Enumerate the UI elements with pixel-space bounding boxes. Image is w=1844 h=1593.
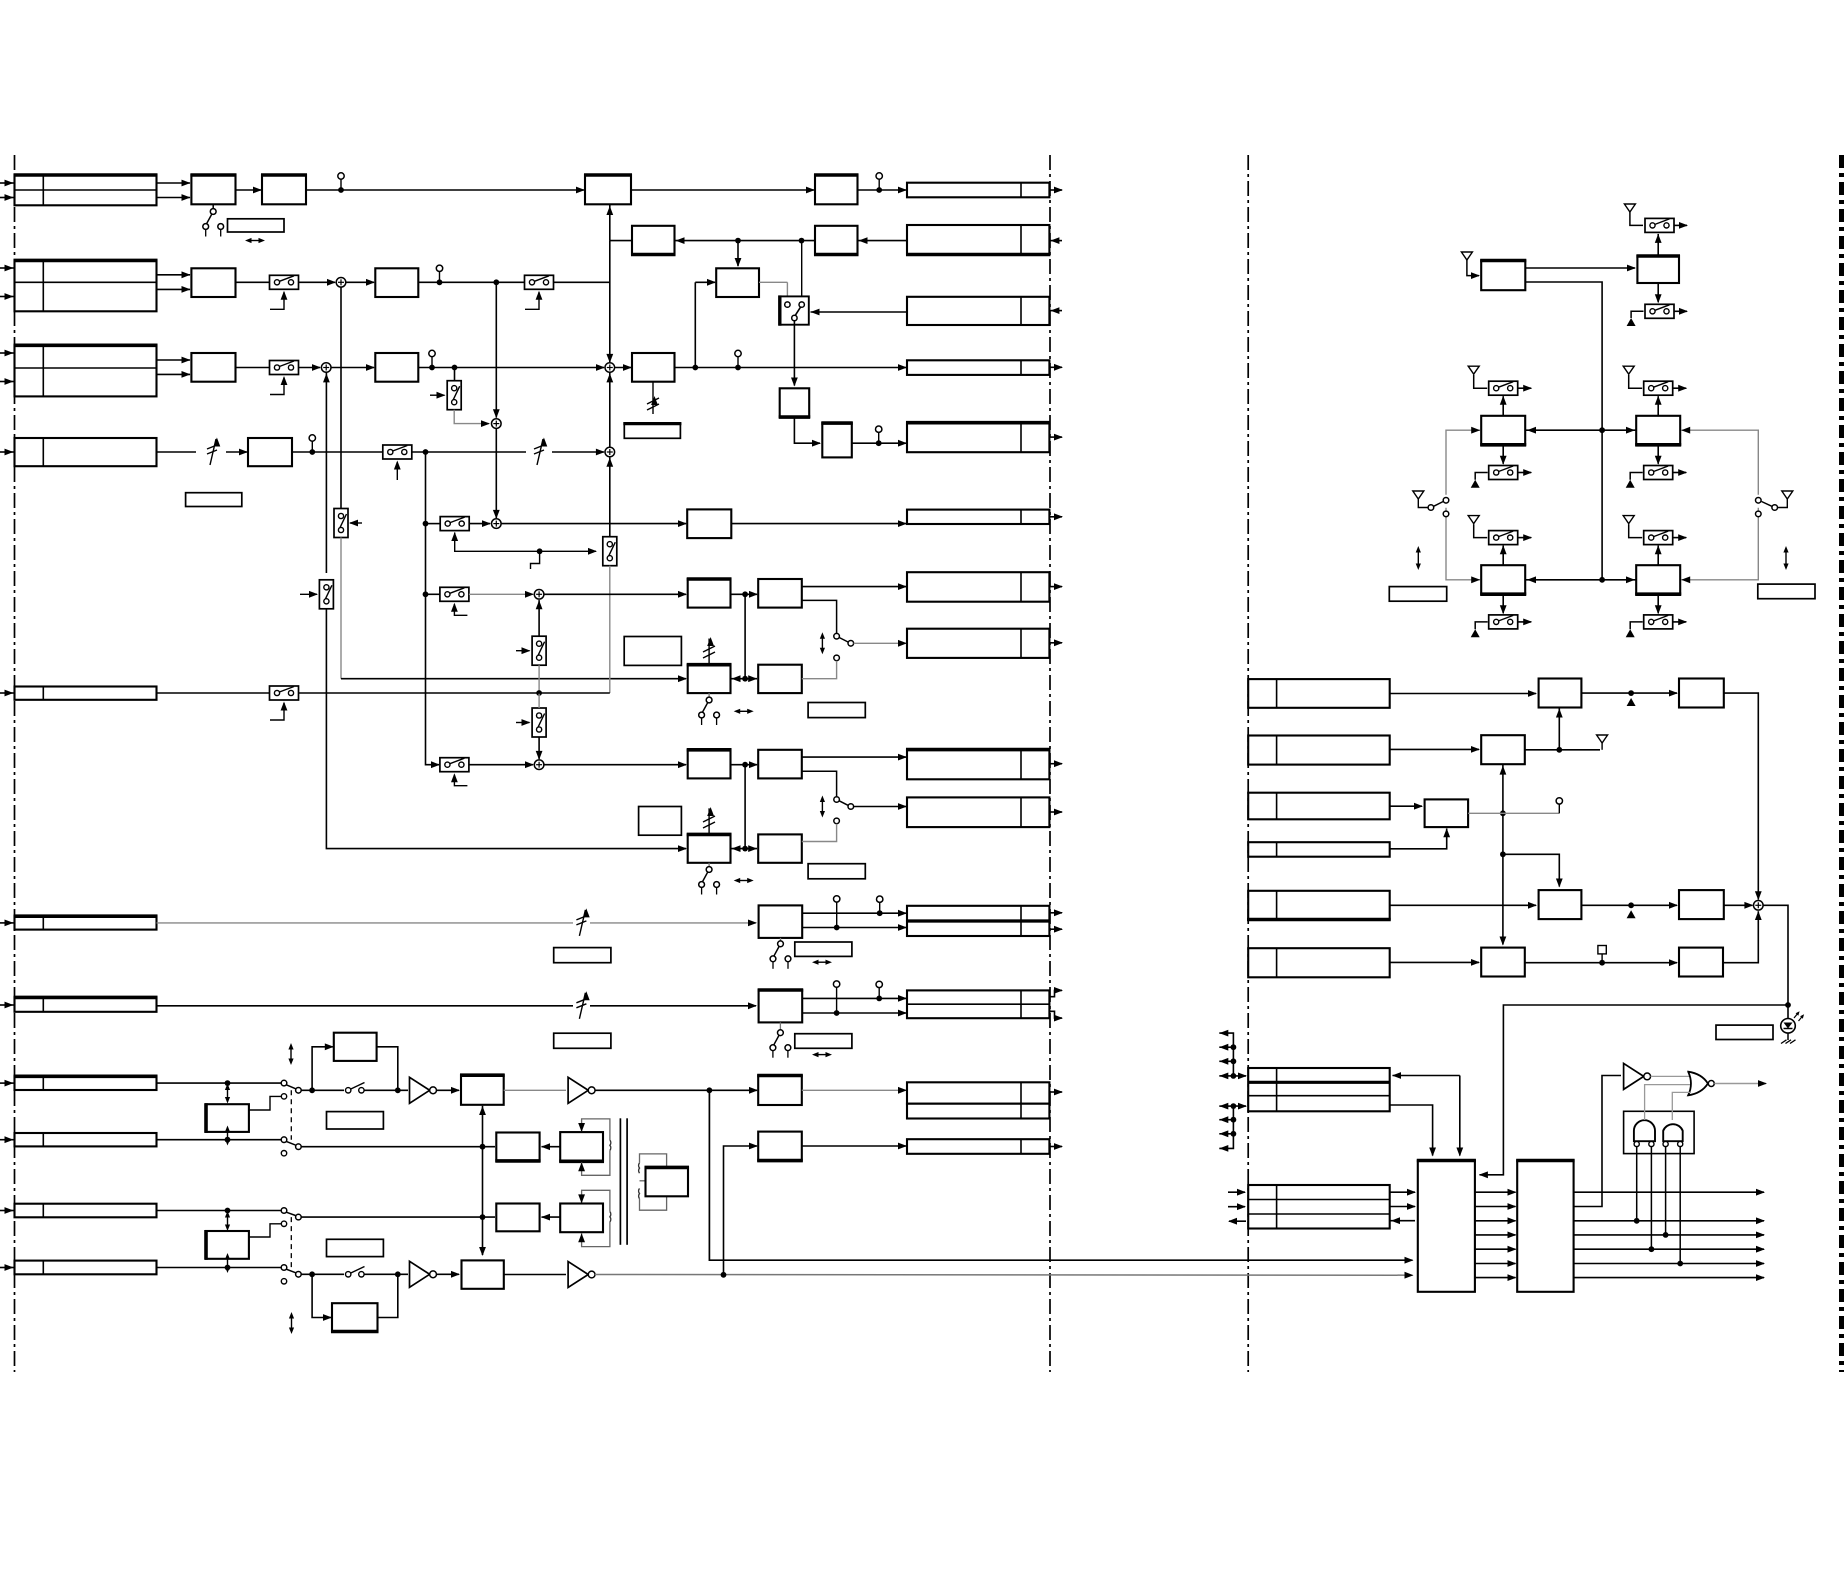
fader row7 <box>576 991 589 1019</box>
switch N3 bottom <box>1644 615 1673 629</box>
wire E9 to E10 <box>541 1214 560 1221</box>
wire line-B lower gray <box>340 538 342 679</box>
block D4 eq <box>331 1303 379 1331</box>
node after B8 <box>692 365 698 371</box>
rec-pb switch glyph C9 <box>770 938 791 969</box>
value box row8 <box>327 1112 384 1129</box>
wire C2 upper out <box>802 583 907 590</box>
wire row5 <box>157 692 270 694</box>
wire gray left feed N1 <box>1446 508 1480 583</box>
wire node down to C7 row <box>744 765 746 849</box>
inverter after E3 <box>568 1077 595 1103</box>
primary loop E9 lower <box>578 1222 610 1247</box>
test point row1 <box>338 173 344 193</box>
switch out T top <box>1645 218 1674 232</box>
wire H1 to NOR gray <box>1651 1075 1690 1077</box>
wire D4 loop <box>312 1274 398 1321</box>
mech link row8 <box>290 1090 292 1139</box>
output connector R16 <box>907 1139 1063 1154</box>
block E4 <box>757 1076 803 1106</box>
node bus1 tap <box>707 1087 713 1093</box>
wire sum E1 to C1 <box>544 591 687 598</box>
wire M2 down <box>1500 445 1507 465</box>
summing node R3b <box>605 363 615 373</box>
up-down arrow D4 <box>289 1312 294 1334</box>
switch S1 <box>603 537 617 566</box>
wire B2 to R1 <box>858 187 908 194</box>
left-right arrow C3 <box>734 709 754 714</box>
output connector R2 <box>906 225 1062 255</box>
unused contact row11 <box>281 1279 286 1284</box>
wire vertical row4 sum to R3b <box>606 372 613 447</box>
wire tri M3 top <box>1629 375 1643 388</box>
secondary coil E8 lower <box>638 1188 641 1198</box>
block T2 <box>1636 256 1680 283</box>
wire L6 down to G3 <box>1456 1076 1463 1157</box>
test point after B2 <box>876 173 882 193</box>
output connector R1 <box>907 183 1063 198</box>
input connector row6 <box>0 916 158 929</box>
wire bus2 gray <box>595 1272 1414 1279</box>
control tri N3 bottom <box>1626 629 1635 637</box>
wire line-C <box>426 452 441 768</box>
rec-pb switch glyph C7 <box>699 863 720 895</box>
wire E11 out <box>802 1143 907 1150</box>
up-down arrow D2 <box>288 1043 293 1065</box>
wire selector to B6 <box>791 321 798 387</box>
wire G4 out 3 <box>1574 1217 1765 1224</box>
output connector R10 <box>907 797 1063 827</box>
node row9 vert <box>480 1144 486 1150</box>
wire A6 east <box>418 364 605 371</box>
wire inv to E3 <box>436 1087 460 1094</box>
wire N3 down <box>1655 594 1662 614</box>
wire <box>157 271 191 292</box>
primary loop E9 upper <box>578 1190 610 1211</box>
node D1 bottom stub <box>225 1137 231 1143</box>
wire B1 to B2 <box>631 187 815 194</box>
wire switch to sum E2 <box>469 761 534 768</box>
wire AND1 top gray <box>1645 1085 1690 1120</box>
summing node mix4 <box>492 419 502 429</box>
test point after B7 <box>876 426 882 446</box>
wire switch to sum E1 gray <box>469 591 534 598</box>
A1 toggle stem <box>212 204 214 208</box>
wire B8 east <box>675 364 908 371</box>
arrow out M3 top <box>1673 385 1688 392</box>
wire row9 <box>157 1139 282 1141</box>
wire row10 <box>157 1210 282 1212</box>
summing node R3a <box>321 363 331 373</box>
wire N1 down <box>1500 594 1507 614</box>
wire B3 output west <box>610 240 632 242</box>
arrow out M3 bottom <box>1673 469 1688 476</box>
input connector row3 <box>0 345 158 396</box>
wire <box>157 357 191 378</box>
wire E7 out <box>504 1274 566 1276</box>
wire C6 lower out <box>802 771 837 796</box>
arrow out M2 top <box>1518 385 1533 392</box>
LED ground hatches <box>1781 1040 1796 1044</box>
left-right arrow C9 <box>812 960 832 965</box>
wire AND1 pin a <box>1636 1147 1638 1221</box>
up-down arrow left <box>1416 546 1421 570</box>
wire into B5 <box>735 241 742 267</box>
wire <box>331 364 375 371</box>
output connector R8 <box>907 629 1063 658</box>
test point C9 lower <box>834 896 840 931</box>
arrow out N1 top <box>1518 534 1533 541</box>
wire row5 to S1 gray <box>609 566 611 693</box>
control tri N1 bottom <box>1471 629 1480 637</box>
switch M3 bottom <box>1644 466 1673 480</box>
left boundary dash-dot line <box>14 155 16 1372</box>
block C4 <box>758 665 802 693</box>
wire node to selector <box>801 241 803 302</box>
node row3 branch <box>452 365 458 381</box>
wire C7-C8 link <box>731 845 758 852</box>
input connector row10 <box>0 1204 157 1218</box>
block E9 <box>560 1204 603 1233</box>
summing node E2 <box>534 760 544 770</box>
wire G4 out 6 <box>1574 1260 1765 1267</box>
value box B8 fader <box>624 424 680 439</box>
right input connector LC <box>1248 793 1390 820</box>
wire C10 lower out <box>802 1010 907 1017</box>
block T1 osc <box>1480 261 1526 291</box>
value box row11 <box>327 1239 384 1256</box>
test point after A7 <box>309 435 315 455</box>
wire P2 to sum column <box>1724 693 1762 900</box>
coupling arrow D1 bottom <box>225 1126 230 1146</box>
wire B6 to B7 <box>794 417 821 447</box>
mid boundary dash-dot line 2 <box>1247 155 1249 1372</box>
wire gray right feed M3 <box>1681 427 1758 495</box>
step D3 contact <box>249 1221 287 1237</box>
AND gate pair box H3 <box>1624 1111 1695 1153</box>
wire T1 to T2 <box>1525 265 1636 272</box>
node D2 down <box>309 1087 315 1093</box>
wire row8 out <box>301 1089 408 1091</box>
arrow out M2 bottom <box>1518 469 1533 476</box>
transformer core <box>620 1118 627 1245</box>
wire sum out <box>1763 905 1791 1008</box>
wire tap switch to sum gray <box>454 410 490 427</box>
wire A2 to B1 <box>306 187 585 194</box>
output connector R6 <box>907 510 1063 524</box>
wire C4 out <box>802 661 837 679</box>
right input connector LD <box>1248 842 1390 857</box>
output connector R9 <box>906 750 1063 780</box>
feed L M2 bottom <box>1475 473 1488 480</box>
wire <box>299 279 337 286</box>
block E7 rec amp <box>462 1260 504 1288</box>
up-down arrow E1 selector <box>820 632 825 654</box>
output connector R3 <box>907 297 1062 325</box>
block C1 <box>687 579 732 608</box>
block N3 <box>1635 565 1681 594</box>
node line-C E1 row <box>423 591 429 597</box>
wire node down to C3 row <box>744 594 746 678</box>
inverter row11 <box>410 1261 437 1287</box>
wire <box>236 367 270 369</box>
wire line-C to SW <box>426 523 441 525</box>
attenuator above C7 <box>703 807 715 834</box>
summing node servo <box>1754 901 1764 911</box>
connector tri M2 top <box>1468 366 1479 374</box>
wire G3-G4 line 2 <box>1475 1203 1517 1210</box>
block P6 <box>1679 890 1724 919</box>
wire S2 up to sum E1 <box>536 600 543 636</box>
wire branch to P5 top <box>1503 854 1563 887</box>
coupling arrow D1 top <box>225 1084 230 1104</box>
unused contact row9 <box>281 1151 286 1156</box>
wire P5 to P6 <box>1581 902 1678 909</box>
switch row3 tap <box>447 381 461 410</box>
switch N3 top <box>1644 531 1673 545</box>
wire T2 up <box>1655 234 1662 256</box>
mid boundary dash-dot line 1 <box>1049 155 1051 1372</box>
block A1 <box>190 175 236 204</box>
wire G2 loop to sum <box>1723 911 1762 963</box>
value box row1 <box>228 219 285 232</box>
wire row5 east <box>299 692 610 694</box>
right input connector LF <box>1248 948 1390 977</box>
wire tri M2 top <box>1474 375 1488 388</box>
node D2 return <box>395 1087 401 1093</box>
switch glyph row8 <box>346 1083 365 1094</box>
wire G1 to G2 <box>1525 959 1678 966</box>
summing node row6 <box>492 519 502 529</box>
feed L N1 bottom <box>1475 622 1488 629</box>
wire NOR out gray <box>1714 1080 1767 1087</box>
value box row4 <box>186 493 242 507</box>
wire LD to P4 bottom <box>1390 828 1450 849</box>
switch N1 bottom <box>1489 615 1518 629</box>
switch on line B <box>334 509 348 538</box>
node C1-C2 <box>742 591 748 597</box>
block B2 <box>814 175 859 204</box>
wire P6 to sum <box>1724 902 1754 909</box>
input connector row11 <box>0 1261 157 1275</box>
feed L N3 bottom <box>1630 622 1643 629</box>
block D2 eq <box>334 1033 377 1061</box>
summing node row4 <box>605 447 615 457</box>
wire P4 out gray <box>1468 812 1559 814</box>
node trunk M row <box>1599 427 1605 433</box>
inverter after E7 <box>568 1262 595 1288</box>
control stub line B switch <box>349 520 362 527</box>
right input connector LE <box>1247 891 1391 920</box>
primary coil E9 <box>609 1212 612 1222</box>
block D3 bias osc <box>206 1230 249 1260</box>
control tri T bottom <box>1627 318 1636 326</box>
wire G4 out 5 <box>1574 1246 1765 1253</box>
wire gray right feed N3 <box>1681 508 1758 583</box>
control tri P5 out <box>1627 910 1636 918</box>
fader row4 b <box>534 438 547 466</box>
connector tri N3 top <box>1623 516 1634 524</box>
wire inv2 east <box>595 1087 758 1094</box>
selector switch B <box>780 295 809 325</box>
wire P3 bottom feed <box>1500 764 1507 945</box>
summing node S1 <box>336 278 346 288</box>
block B4 <box>814 226 859 255</box>
NOR gate H2 <box>1688 1072 1714 1096</box>
left-right arrow row1 <box>245 238 265 243</box>
wire selector to R10 <box>854 803 907 810</box>
block C6 <box>758 750 802 779</box>
node control wire <box>531 548 543 569</box>
wire S3 down to sum E2 <box>536 737 543 760</box>
wire line-A <box>323 372 330 573</box>
monitor select right <box>1756 491 1793 517</box>
arrow out N3 bottom <box>1673 619 1688 626</box>
block M3 <box>1635 416 1681 445</box>
wire vertical B1 feed <box>606 204 613 240</box>
block B3 <box>631 226 676 255</box>
wire C5 to C6 <box>731 761 759 768</box>
wire B5 to selector gray <box>759 282 787 301</box>
switch S2 <box>532 636 546 665</box>
wire P3 to P1 <box>1556 709 1563 750</box>
switch SW1 <box>270 275 299 309</box>
left-right arrow C7 <box>734 878 754 883</box>
wire G3-G4 line 4 <box>1475 1232 1517 1239</box>
input connector row1 <box>0 175 158 205</box>
wire row4 <box>157 449 249 456</box>
wire row11 out <box>301 1273 408 1275</box>
arrow into L7 row1 <box>1228 1189 1246 1196</box>
block C8 <box>758 834 802 862</box>
switch SW5 <box>270 686 299 720</box>
block C5 <box>687 750 732 779</box>
wire AND2 pin b <box>1679 1147 1681 1264</box>
up-down arrow E2 selector <box>820 796 825 818</box>
wire E11 feed <box>724 1143 759 1275</box>
wire G4 out 7 <box>1574 1274 1765 1281</box>
inverter row8 <box>410 1077 437 1103</box>
wire row8 <box>157 1082 282 1084</box>
right input connector L7 <box>1248 1185 1390 1229</box>
connector tri T1 <box>1461 252 1472 260</box>
coupling arrow D3 top <box>225 1211 230 1231</box>
control tri M2 bottom <box>1471 480 1480 488</box>
spdt row10 <box>281 1208 301 1220</box>
node D3 top stub <box>225 1208 231 1214</box>
wire C8 out <box>802 824 837 842</box>
wire <box>346 279 375 286</box>
wire sum E2 to C5 <box>544 761 687 768</box>
test point P4 <box>1556 798 1562 814</box>
mech link row11 <box>290 1217 292 1267</box>
control stub S2 <box>516 647 531 654</box>
switch glyph under A1 <box>203 209 224 237</box>
block E3 rec amp <box>460 1075 505 1105</box>
arrow out switch T bottom <box>1674 308 1688 315</box>
input connector row7 <box>0 997 158 1011</box>
output connector R13 <box>907 990 1049 1018</box>
wire A7 east <box>292 451 384 453</box>
test point C9 upper <box>877 896 883 916</box>
wire A4 east <box>418 281 524 283</box>
control stub line A switch <box>300 591 318 598</box>
control tri M3 bottom <box>1626 480 1635 488</box>
step arrows R13 <box>1049 987 1063 1022</box>
node D4 return <box>395 1271 401 1277</box>
wire vertical into R3b <box>606 241 613 363</box>
wire M3 down <box>1655 445 1662 465</box>
wire <box>236 281 270 283</box>
input connector row9 <box>0 1133 157 1146</box>
wire M3 up <box>1655 396 1662 416</box>
value box C8 row <box>808 864 865 879</box>
wire L7 row1 <box>1390 1189 1416 1196</box>
wire R3 to selector <box>811 309 908 316</box>
wire G3-G4 line 3 <box>1475 1217 1517 1224</box>
right input connector LA <box>1248 679 1390 708</box>
block N1 <box>1480 565 1526 594</box>
block A4 <box>375 268 418 297</box>
wire B4 to B3 <box>676 237 815 244</box>
wire C3-C4 link <box>731 675 758 682</box>
wire M2 up <box>1500 396 1507 416</box>
wire <box>157 180 191 201</box>
arrow out N3 top <box>1673 534 1688 541</box>
wire row9 out <box>301 1146 495 1148</box>
wire N row <box>1525 576 1636 583</box>
arrow into L7 row2 <box>1228 1203 1246 1210</box>
output connector R11 <box>907 906 1063 921</box>
value box C10 <box>795 1034 852 1049</box>
block P3 <box>1481 735 1525 764</box>
wire AND2 pin a <box>1665 1147 1667 1235</box>
block D1 bias osc <box>206 1103 249 1133</box>
control wire row6 <box>451 532 597 555</box>
connector tri M3 top <box>1623 366 1634 374</box>
rec-pb switch glyph C10 <box>770 1022 791 1057</box>
arrow cluster upper <box>1219 1030 1247 1080</box>
output connector R4 <box>907 360 1063 375</box>
wire tri to switch T <box>1630 212 1643 225</box>
arrow out N1 bottom <box>1518 619 1533 626</box>
wire LE to P5 <box>1390 902 1537 909</box>
LED indicator <box>1781 1005 1804 1040</box>
wire S1 top to row4 sum <box>606 458 613 537</box>
wire tri N3 top <box>1629 524 1643 537</box>
switch N1 top <box>1489 531 1518 545</box>
node D4 down <box>309 1271 315 1277</box>
wire LC to P4 <box>1390 803 1423 810</box>
block B6 <box>779 388 811 417</box>
right boundary bold dashed line <box>1839 155 1844 1372</box>
block B5 <box>716 268 759 297</box>
block M2 <box>1480 416 1526 445</box>
secondary coil E8 upper <box>638 1163 641 1173</box>
arrow out L7 row3 <box>1228 1218 1246 1225</box>
wire B9 to R6 <box>731 520 907 527</box>
node feeding selector <box>799 238 805 244</box>
wire G4 out 4 <box>1574 1232 1765 1239</box>
right input connector L6 <box>1248 1068 1390 1111</box>
output connector R14 <box>907 1082 1063 1103</box>
feed L T bottom <box>1631 311 1643 318</box>
wire selector to R8 <box>854 640 907 647</box>
wire row5 to S3 gray <box>538 693 540 708</box>
block B9 <box>687 509 731 538</box>
wire LB to P3 <box>1390 746 1480 753</box>
wire E6 to E5 <box>541 1143 561 1150</box>
